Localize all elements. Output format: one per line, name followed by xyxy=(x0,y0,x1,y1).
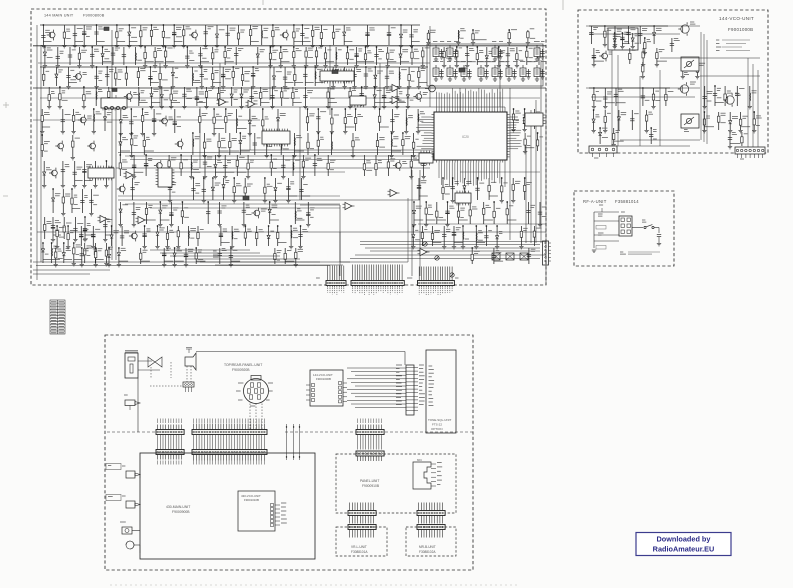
value label xyxy=(437,479,442,481)
wire xyxy=(457,61,466,63)
wire xyxy=(207,202,209,224)
diode D46 xyxy=(117,253,120,256)
value label xyxy=(594,157,598,159)
ground xyxy=(535,59,539,61)
430-MAIN-UNIT box xyxy=(140,453,315,559)
value label xyxy=(690,22,695,24)
wire xyxy=(250,25,252,45)
value label xyxy=(152,71,157,73)
capacitor C120 xyxy=(638,34,642,36)
wire xyxy=(528,202,530,224)
wire xyxy=(476,47,478,65)
value label xyxy=(265,117,269,119)
wire xyxy=(237,171,246,173)
wire xyxy=(83,161,85,185)
wire xyxy=(91,47,93,65)
connector J1 xyxy=(326,266,346,288)
pin labels xyxy=(419,288,452,295)
capacitor C30 xyxy=(221,74,225,76)
resistor R33 xyxy=(411,52,413,58)
value label xyxy=(81,50,87,52)
resistor R117 xyxy=(442,188,444,194)
resistor R163 xyxy=(703,119,705,125)
wire xyxy=(150,207,340,209)
wire xyxy=(405,109,407,131)
value label xyxy=(165,37,170,39)
ground xyxy=(409,177,413,179)
value label xyxy=(366,169,372,171)
ground xyxy=(202,156,206,158)
value label xyxy=(269,137,275,139)
value label xyxy=(107,113,112,115)
wire xyxy=(84,217,86,239)
wire xyxy=(138,369,160,371)
wire xyxy=(604,26,606,44)
tuned circuit T4 xyxy=(534,45,540,59)
op-amp U2 xyxy=(248,100,255,107)
value label xyxy=(270,230,274,232)
value label xyxy=(47,221,52,223)
value label xyxy=(238,48,243,50)
ground xyxy=(373,107,377,109)
capacitor C13 xyxy=(68,55,72,57)
value label xyxy=(486,205,491,207)
ground xyxy=(500,201,504,203)
wire xyxy=(225,61,234,63)
ground xyxy=(406,107,410,109)
resistor R146 xyxy=(195,253,197,259)
wire xyxy=(347,47,349,65)
wire xyxy=(270,219,279,221)
op-amp U4 xyxy=(100,215,107,222)
ground xyxy=(681,77,685,79)
wire xyxy=(153,109,155,133)
wire xyxy=(239,133,241,155)
wire xyxy=(157,226,159,246)
relay xyxy=(506,253,514,260)
wire xyxy=(328,102,337,104)
wire xyxy=(294,150,304,152)
value label xyxy=(213,255,219,257)
value label xyxy=(252,116,258,118)
wire xyxy=(145,155,147,176)
wire xyxy=(200,61,209,63)
resistor R75 xyxy=(94,249,96,255)
wire xyxy=(325,47,327,65)
wire xyxy=(660,57,760,59)
wire xyxy=(749,86,751,106)
resistor R147 xyxy=(274,254,276,260)
value label xyxy=(602,137,608,139)
value label xyxy=(74,195,78,197)
value label xyxy=(419,371,424,373)
capacitor C75 xyxy=(132,165,136,167)
value label xyxy=(599,204,603,206)
capacitor C49 xyxy=(439,72,443,74)
tuned circuit T7 xyxy=(461,65,467,79)
value label xyxy=(330,160,336,162)
resistor R26 xyxy=(293,52,295,58)
value label xyxy=(429,405,434,407)
wire xyxy=(646,110,648,130)
value label xyxy=(390,59,394,61)
wire xyxy=(616,102,626,104)
value label xyxy=(335,29,340,31)
wire xyxy=(344,67,346,86)
value label xyxy=(204,70,208,72)
value label xyxy=(596,91,599,93)
wire xyxy=(240,150,250,152)
value label xyxy=(87,116,92,118)
value label xyxy=(530,37,536,39)
wire xyxy=(72,135,74,157)
diode D43 xyxy=(412,235,415,238)
wire xyxy=(236,155,238,176)
value label xyxy=(429,390,432,392)
diode D25 xyxy=(62,253,65,256)
value label xyxy=(176,36,182,38)
resistor R169 xyxy=(741,137,743,143)
value label xyxy=(166,248,171,250)
ground xyxy=(738,131,742,133)
value label xyxy=(207,166,212,168)
ground xyxy=(71,158,75,160)
value label xyxy=(97,167,101,169)
value label xyxy=(219,29,225,31)
resistor R118 xyxy=(488,185,490,191)
wire xyxy=(272,25,274,45)
value label xyxy=(297,209,302,211)
resistor R103 xyxy=(168,161,170,167)
capacitor C65 xyxy=(73,229,77,231)
resistor R63 xyxy=(327,92,329,98)
wire xyxy=(331,109,333,131)
ground xyxy=(107,107,111,109)
wire xyxy=(43,67,45,86)
capacitor C101 xyxy=(91,234,95,236)
wire xyxy=(354,67,356,86)
wire xyxy=(344,109,346,131)
value label xyxy=(523,228,527,230)
wire xyxy=(757,70,759,148)
ground xyxy=(251,87,255,89)
capacitor C130 xyxy=(735,94,739,96)
diode D44 xyxy=(496,236,499,239)
capacitor C77 xyxy=(203,162,207,164)
wire xyxy=(152,102,161,104)
resistor R86 xyxy=(378,116,380,122)
resistor R30 xyxy=(346,53,348,59)
value label xyxy=(98,27,104,29)
value label xyxy=(415,239,420,241)
wire xyxy=(223,178,225,200)
value label xyxy=(541,41,545,43)
ground xyxy=(421,177,425,179)
wire xyxy=(190,155,192,176)
value label xyxy=(307,91,313,93)
resistor R83 xyxy=(331,118,333,124)
value label xyxy=(236,184,242,186)
value label xyxy=(164,89,169,91)
value label xyxy=(76,245,82,247)
ground xyxy=(158,87,162,89)
wire xyxy=(473,39,487,41)
wire xyxy=(44,217,46,239)
wire xyxy=(494,260,503,262)
value label xyxy=(616,131,621,133)
wire xyxy=(326,61,335,63)
value label xyxy=(239,156,245,158)
value label xyxy=(684,73,689,75)
resistor R72 xyxy=(63,226,65,232)
resistor R4 xyxy=(150,30,152,36)
wire xyxy=(74,161,76,185)
value label xyxy=(389,71,394,73)
wire xyxy=(67,226,69,246)
resistor R66 xyxy=(72,115,74,121)
capacitor C93 xyxy=(206,212,210,214)
wire xyxy=(252,67,254,86)
capacitor C76 xyxy=(144,163,148,165)
capacitor C48 xyxy=(540,52,544,54)
wire xyxy=(498,47,500,65)
wire xyxy=(161,87,163,106)
wire xyxy=(642,62,644,76)
value label xyxy=(146,137,150,139)
microphone round connector xyxy=(244,379,269,404)
value label xyxy=(157,49,162,51)
svg-text:TONE-SQL-UNIT: TONE-SQL-UNIT xyxy=(428,418,451,422)
wire xyxy=(375,155,377,176)
ground xyxy=(526,77,530,79)
value label xyxy=(645,99,650,101)
capacitor C117 xyxy=(589,33,593,35)
wire xyxy=(234,195,243,197)
value label xyxy=(283,138,286,140)
ground xyxy=(56,66,60,68)
value label xyxy=(717,97,722,99)
value label xyxy=(396,364,402,366)
wire xyxy=(339,205,341,262)
value label xyxy=(159,228,164,230)
ground xyxy=(417,87,421,89)
wire xyxy=(304,67,306,86)
wire xyxy=(193,82,201,84)
diode D21 xyxy=(103,117,106,120)
wire xyxy=(42,243,44,263)
value label xyxy=(238,115,242,117)
resistor R95 xyxy=(317,140,319,146)
capacitor C104 xyxy=(219,234,223,236)
wire xyxy=(56,226,58,246)
value label xyxy=(479,51,483,53)
wire xyxy=(191,171,200,173)
resistor R37 xyxy=(476,54,478,60)
value label xyxy=(499,41,503,43)
wire xyxy=(696,62,698,76)
value label xyxy=(96,112,102,114)
scan artifact line xyxy=(110,584,520,586)
wire xyxy=(388,25,390,45)
wire xyxy=(172,67,174,86)
ground xyxy=(248,134,252,136)
ground xyxy=(169,107,173,109)
resistor R119 xyxy=(501,186,503,192)
value label xyxy=(133,93,138,95)
ground xyxy=(506,66,510,68)
capacitor C108 xyxy=(484,236,488,238)
wire xyxy=(159,67,161,86)
resistor R69 xyxy=(62,197,64,203)
diode D35 xyxy=(463,186,466,189)
value label xyxy=(595,115,599,117)
capacitor C73 xyxy=(532,117,536,119)
value label xyxy=(86,27,92,29)
ground xyxy=(55,247,59,249)
value label xyxy=(58,249,62,251)
wire xyxy=(456,47,458,65)
value label xyxy=(506,61,509,63)
value label xyxy=(277,182,282,184)
wire xyxy=(653,88,655,106)
wire xyxy=(654,227,659,229)
ground xyxy=(507,79,511,81)
wire xyxy=(398,67,400,86)
value label xyxy=(227,161,231,163)
value label xyxy=(419,382,423,384)
wire xyxy=(419,170,421,276)
wire xyxy=(118,199,420,201)
wire xyxy=(349,87,351,106)
value label xyxy=(189,60,194,62)
wire xyxy=(108,87,110,106)
capacitor C110 xyxy=(162,253,166,255)
wire xyxy=(133,155,135,176)
ground xyxy=(644,131,648,133)
resistor R68 xyxy=(72,141,74,147)
wire xyxy=(204,133,206,155)
value label xyxy=(393,145,397,147)
ground xyxy=(118,225,122,227)
value label xyxy=(223,229,227,231)
capacitor C28 xyxy=(148,77,152,79)
value label xyxy=(429,372,434,374)
capacitor C1 xyxy=(41,35,45,37)
coil L10 xyxy=(93,114,96,122)
wire xyxy=(295,82,303,84)
ground xyxy=(540,77,544,79)
resistor R21 xyxy=(164,51,166,57)
capacitor C84 xyxy=(191,189,195,191)
wire xyxy=(408,67,410,86)
resistor R46 xyxy=(212,74,214,80)
wire xyxy=(281,61,290,63)
resistor R133 xyxy=(166,233,168,239)
wire xyxy=(78,47,80,65)
value label xyxy=(744,133,748,135)
wire xyxy=(237,128,247,130)
resistor R24 xyxy=(269,53,271,59)
resistor R51 xyxy=(408,75,410,81)
ground xyxy=(455,66,459,68)
ground xyxy=(304,66,308,68)
value label xyxy=(310,216,314,218)
wire xyxy=(90,189,92,213)
wire xyxy=(55,248,57,264)
value label xyxy=(66,38,71,40)
wire xyxy=(488,178,490,200)
value label xyxy=(243,90,249,92)
value label xyxy=(330,98,335,100)
resistor R34 xyxy=(422,51,424,57)
ground xyxy=(343,132,347,134)
capacitor C116 xyxy=(620,37,624,39)
connector J11 xyxy=(348,525,376,538)
value label xyxy=(379,138,384,140)
wire xyxy=(256,226,258,246)
value label xyxy=(403,30,408,32)
capacitor C4 xyxy=(94,32,98,34)
value label xyxy=(396,368,400,370)
capacitor C88 xyxy=(417,186,421,188)
value label xyxy=(122,465,125,467)
resistor R22 xyxy=(212,53,214,59)
coil L1 xyxy=(261,30,264,38)
connector J12 xyxy=(417,503,445,524)
wire xyxy=(270,155,272,176)
ground xyxy=(272,87,276,89)
wire xyxy=(525,147,534,149)
wire xyxy=(407,87,409,106)
capacitor C111 xyxy=(184,254,188,256)
wire xyxy=(273,67,275,86)
wire xyxy=(499,60,501,107)
wire xyxy=(422,47,424,65)
value label xyxy=(509,205,513,207)
value label xyxy=(593,28,598,30)
value label xyxy=(668,90,674,92)
wire xyxy=(81,189,83,213)
value label xyxy=(273,158,277,160)
resistor R168 xyxy=(696,66,698,72)
value label xyxy=(60,51,64,53)
wire xyxy=(37,231,546,233)
value label xyxy=(202,113,208,115)
ground xyxy=(42,186,46,188)
capacitor C7 xyxy=(226,33,230,35)
value label xyxy=(499,61,504,63)
resistor R82 xyxy=(306,117,308,123)
wire xyxy=(118,248,120,264)
value label xyxy=(86,35,90,37)
capacitor C90 xyxy=(475,188,479,190)
capacitor C102 xyxy=(120,236,124,238)
ground xyxy=(94,87,98,89)
varactor module xyxy=(681,57,699,71)
wire xyxy=(628,26,630,44)
resistor R55 xyxy=(83,95,85,101)
ground xyxy=(281,177,285,179)
resistor R48 xyxy=(241,75,243,81)
tuned circuit T9 xyxy=(492,65,498,79)
resistor R145 xyxy=(140,253,142,259)
wire xyxy=(293,102,302,104)
value label xyxy=(153,27,158,29)
diode D41 xyxy=(156,232,159,235)
value label xyxy=(124,394,128,396)
wire xyxy=(706,40,708,144)
value label xyxy=(460,29,466,31)
